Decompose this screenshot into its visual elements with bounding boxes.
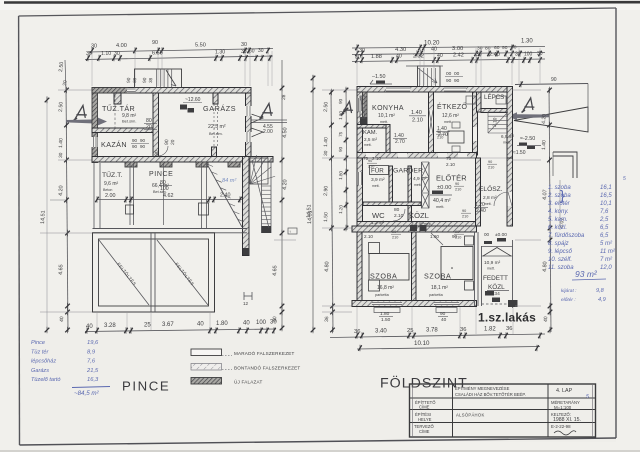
svg-text:90: 90 bbox=[440, 311, 446, 317]
svg-text:ELŐTÉR: ELŐTÉR bbox=[436, 174, 467, 183]
svg-text:20: 20 bbox=[170, 139, 176, 145]
svg-text:7,6: 7,6 bbox=[87, 359, 96, 365]
svg-text:10. szélf.: 10. szélf. bbox=[548, 257, 572, 263]
svg-text:4,9 m²: 4,9 m² bbox=[413, 176, 427, 182]
svg-text:9,8: 9,8 bbox=[596, 288, 605, 294]
svg-text:LÉPCS: LÉPCS bbox=[484, 94, 504, 101]
svg-text:mett.: mett. bbox=[484, 202, 492, 206]
svg-text:210: 210 bbox=[488, 166, 494, 170]
svg-text:30: 30 bbox=[359, 48, 365, 54]
svg-text:6,5: 6,5 bbox=[600, 225, 609, 231]
svg-text:40: 40 bbox=[396, 54, 402, 60]
svg-text:mett.: mett. bbox=[503, 141, 511, 145]
svg-text:1.30: 1.30 bbox=[215, 50, 225, 56]
svg-text:Bet.sim.: Bet.sim. bbox=[209, 132, 223, 136]
svg-text:2.10: 2.10 bbox=[394, 213, 404, 219]
svg-text:9. lépcső: 9. lépcső bbox=[548, 249, 573, 255]
svg-text:}: } bbox=[560, 187, 565, 203]
svg-text:Tüzelő tartó: Tüzelő tartó bbox=[31, 377, 61, 383]
svg-text:SZOBA: SZOBA bbox=[370, 272, 397, 281]
svg-text:38: 38 bbox=[132, 77, 137, 83]
svg-text:3.40: 3.40 bbox=[375, 329, 387, 335]
svg-text:előtér :: előtér : bbox=[561, 297, 576, 303]
svg-text:KAM.: KAM. bbox=[363, 130, 378, 136]
svg-text:GARÁZS: GARÁZS bbox=[203, 104, 236, 113]
svg-text:30: 30 bbox=[114, 51, 120, 57]
svg-text:30: 30 bbox=[58, 152, 64, 158]
svg-text:30: 30 bbox=[241, 49, 247, 55]
svg-text:00: 00 bbox=[484, 232, 490, 237]
svg-text:mett.: mett. bbox=[487, 267, 495, 271]
svg-text:ÉPÍTMÉNY MEGNEVEZÉSE: ÉPÍTMÉNY MEGNEVEZÉSE bbox=[455, 386, 510, 391]
svg-text:1.10: 1.10 bbox=[101, 51, 111, 57]
svg-text:–1.50: –1.50 bbox=[372, 74, 386, 80]
svg-text:3.67: 3.67 bbox=[162, 322, 174, 328]
svg-text:2,5: 2,5 bbox=[599, 217, 609, 223]
svg-text:40: 40 bbox=[197, 322, 204, 328]
svg-text:40: 40 bbox=[543, 316, 549, 322]
svg-text:90: 90 bbox=[140, 144, 146, 149]
svg-text:2,8 m²: 2,8 m² bbox=[483, 195, 497, 201]
svg-text:12,0: 12,0 bbox=[600, 265, 612, 271]
svg-text:10,1: 10,1 bbox=[600, 201, 612, 207]
svg-text:38: 38 bbox=[148, 77, 153, 83]
svg-text:11 m²: 11 m² bbox=[600, 249, 616, 255]
svg-text:2.40: 2.40 bbox=[489, 52, 500, 58]
svg-text:28: 28 bbox=[281, 94, 287, 100]
svg-text:3.78: 3.78 bbox=[426, 328, 438, 334]
svg-text:~84,5 m²: ~84,5 m² bbox=[74, 390, 100, 397]
svg-text:10.10: 10.10 bbox=[414, 340, 430, 347]
svg-text:HELYE: HELYE bbox=[418, 417, 432, 422]
svg-text:1.80: 1.80 bbox=[338, 170, 343, 180]
svg-text:36: 36 bbox=[324, 316, 330, 322]
svg-text:1.sz.lakás: 1.sz.lakás bbox=[478, 311, 536, 325]
svg-text:4.80: 4.80 bbox=[324, 261, 331, 272]
svg-text:≈1.50: ≈1.50 bbox=[513, 150, 526, 156]
svg-text:21,5: 21,5 bbox=[86, 368, 99, 374]
svg-text:90: 90 bbox=[368, 159, 372, 163]
svg-text:16,1: 16,1 bbox=[600, 185, 612, 191]
svg-text:mett.: mett. bbox=[380, 120, 388, 124]
svg-text:2.00: 2.00 bbox=[105, 193, 116, 199]
svg-text:2,5 m²: 2,5 m² bbox=[364, 137, 377, 142]
svg-text:mett.: mett. bbox=[424, 222, 432, 226]
svg-text:3.28: 3.28 bbox=[104, 323, 116, 329]
svg-text:6.50: 6.50 bbox=[152, 51, 163, 57]
svg-text:4.65: 4.65 bbox=[272, 265, 279, 276]
svg-text:30: 30 bbox=[477, 46, 483, 52]
svg-text:2.50: 2.50 bbox=[58, 102, 65, 113]
svg-text:22,5 m²: 22,5 m² bbox=[208, 124, 226, 130]
svg-text:2.70: 2.70 bbox=[395, 139, 405, 145]
svg-text:90: 90 bbox=[164, 139, 170, 145]
svg-text:5. kam.: 5. kam. bbox=[548, 217, 568, 223]
svg-text:Beton: Beton bbox=[103, 188, 112, 192]
svg-text:1.40: 1.40 bbox=[58, 138, 65, 148]
svg-text:40: 40 bbox=[59, 316, 65, 322]
svg-text:Pince: Pince bbox=[31, 340, 45, 346]
svg-text:12,6 m²: 12,6 m² bbox=[442, 113, 459, 119]
svg-text:20: 20 bbox=[146, 124, 152, 130]
svg-text:FÜR: FÜR bbox=[371, 168, 384, 175]
svg-text:5: 5 bbox=[586, 394, 589, 400]
svg-text:90: 90 bbox=[338, 98, 343, 104]
svg-text:1.80: 1.80 bbox=[380, 311, 390, 317]
svg-text:FEDETT: FEDETT bbox=[483, 275, 508, 282]
svg-text:9,6 m²: 9,6 m² bbox=[104, 181, 119, 187]
svg-text:ÉTKEZŐ: ÉTKEZŐ bbox=[437, 102, 468, 111]
svg-text:90: 90 bbox=[454, 78, 460, 84]
svg-text:ELŐSZ.: ELŐSZ. bbox=[479, 184, 503, 193]
svg-text:mett.: mett. bbox=[364, 143, 372, 147]
svg-text:6,9 m²: 6,9 m² bbox=[501, 134, 514, 139]
svg-text:40,4 m²: 40,4 m² bbox=[433, 198, 451, 204]
svg-text:MARADÓ FALSZERKEZET: MARADÓ FALSZERKEZET bbox=[234, 350, 294, 356]
svg-text:8. spájz: 8. spájz bbox=[548, 241, 569, 247]
svg-text:4.20: 4.20 bbox=[282, 179, 289, 190]
svg-text:10.20: 10.20 bbox=[424, 40, 440, 47]
svg-text:5 m²: 5 m² bbox=[600, 241, 613, 247]
svg-text:25: 25 bbox=[407, 328, 413, 334]
svg-text:Tüz tér: Tüz tér bbox=[31, 349, 50, 355]
svg-text:1,2 m²: 1,2 m² bbox=[371, 220, 384, 225]
svg-text:100: 100 bbox=[160, 186, 169, 192]
svg-text:6,5: 6,5 bbox=[600, 233, 609, 239]
svg-text:5.50: 5.50 bbox=[195, 43, 206, 49]
svg-text:mett.: mett. bbox=[444, 120, 452, 124]
svg-text:210: 210 bbox=[455, 188, 461, 192]
svg-text:40: 40 bbox=[437, 53, 443, 59]
svg-text:210: 210 bbox=[437, 136, 443, 140]
svg-text:2.50: 2.50 bbox=[58, 61, 65, 72]
svg-text:±0.00: ±0.00 bbox=[437, 185, 451, 191]
svg-text:10,9 m²: 10,9 m² bbox=[484, 260, 501, 266]
svg-text:3,9 m²: 3,9 m² bbox=[371, 177, 385, 183]
svg-text:KAZÁN: KAZÁN bbox=[101, 140, 127, 149]
svg-text:4.62: 4.62 bbox=[163, 193, 174, 199]
svg-text:WC: WC bbox=[372, 211, 385, 220]
svg-text:18,1 m²: 18,1 m² bbox=[431, 285, 448, 291]
svg-text:2.10: 2.10 bbox=[364, 234, 373, 239]
svg-text:4.20: 4.20 bbox=[58, 185, 65, 196]
svg-text:2.42: 2.42 bbox=[453, 53, 464, 59]
svg-text:2.40: 2.40 bbox=[476, 208, 486, 214]
svg-text:90: 90 bbox=[437, 130, 441, 134]
svg-text:90: 90 bbox=[502, 45, 508, 51]
svg-text:CSALÁDI HÁZ BŐV.TETŐTÉR BEÉP.: CSALÁDI HÁZ BŐV.TETŐTÉR BEÉP. bbox=[455, 392, 526, 397]
svg-text:5: 5 bbox=[623, 176, 626, 182]
svg-text:Bet.sim.: Bet.sim. bbox=[122, 119, 136, 124]
svg-text:00: 00 bbox=[454, 71, 460, 77]
svg-text:40: 40 bbox=[441, 317, 447, 323]
svg-text:≈-2.50: ≈-2.50 bbox=[520, 136, 535, 142]
svg-text:100: 100 bbox=[524, 51, 533, 57]
svg-text:19,6: 19,6 bbox=[87, 340, 99, 346]
svg-text:4.50: 4.50 bbox=[282, 127, 289, 138]
svg-text:2.32: 2.32 bbox=[413, 53, 424, 59]
svg-text:ALSÓPÁHOK: ALSÓPÁHOK bbox=[456, 413, 485, 418]
svg-text:1.40: 1.40 bbox=[411, 110, 422, 116]
svg-text:2.10: 2.10 bbox=[446, 162, 455, 167]
svg-text:16,5: 16,5 bbox=[600, 193, 612, 199]
svg-text:80: 80 bbox=[485, 45, 491, 51]
svg-text:30: 30 bbox=[515, 52, 521, 58]
svg-text:2.10: 2.10 bbox=[372, 156, 381, 161]
svg-text:90: 90 bbox=[551, 77, 557, 83]
svg-text:30: 30 bbox=[241, 42, 247, 48]
svg-text:30: 30 bbox=[355, 55, 361, 61]
svg-text:mett.: mett. bbox=[436, 205, 444, 209]
svg-text:1.40: 1.40 bbox=[323, 137, 330, 147]
svg-text:00: 00 bbox=[446, 71, 452, 77]
svg-text:Garázs: Garázs bbox=[31, 368, 49, 374]
svg-text:7 m²: 7 m² bbox=[600, 257, 613, 263]
svg-text:CÍME: CÍME bbox=[419, 429, 430, 434]
svg-text:90: 90 bbox=[154, 150, 160, 156]
svg-text:4.20: 4.20 bbox=[541, 114, 548, 125]
svg-text:ÚJ FALAZAT: ÚJ FALAZAT bbox=[234, 379, 262, 385]
svg-text:36: 36 bbox=[354, 329, 360, 335]
svg-text:±0.00: ±0.00 bbox=[495, 232, 507, 238]
svg-text:mett.: mett. bbox=[372, 184, 380, 188]
svg-text:30: 30 bbox=[91, 44, 97, 50]
svg-text:7,6: 7,6 bbox=[600, 209, 609, 215]
svg-text:30: 30 bbox=[270, 320, 277, 326]
svg-text:TŰZ.T.: TŰZ.T. bbox=[102, 170, 122, 179]
svg-text:4.00: 4.00 bbox=[116, 43, 127, 49]
svg-text:7. fürdőszoba: 7. fürdőszoba bbox=[548, 233, 585, 239]
svg-text:mett.: mett. bbox=[414, 183, 422, 187]
svg-text:210: 210 bbox=[368, 165, 374, 169]
svg-text:16,3: 16,3 bbox=[87, 377, 99, 383]
svg-text:2.10: 2.10 bbox=[412, 118, 423, 124]
svg-text:2.10: 2.10 bbox=[492, 117, 498, 127]
svg-text:parketta: parketta bbox=[375, 293, 390, 297]
svg-text:KÖZL: KÖZL bbox=[488, 283, 505, 291]
svg-text:75: 75 bbox=[338, 131, 343, 137]
svg-text:36: 36 bbox=[506, 326, 512, 332]
svg-text:60: 60 bbox=[494, 45, 500, 51]
svg-text:1.82: 1.82 bbox=[484, 327, 496, 333]
svg-text:KONYHA: KONYHA bbox=[372, 105, 404, 112]
svg-text:90: 90 bbox=[488, 160, 492, 164]
svg-text:4. kony.: 4. kony. bbox=[548, 209, 569, 215]
svg-text:CÍME: CÍME bbox=[419, 405, 430, 410]
svg-text:40: 40 bbox=[243, 321, 250, 327]
svg-text:parketta: parketta bbox=[429, 293, 444, 297]
svg-text:3,4 m²: 3,4 m² bbox=[411, 221, 424, 226]
svg-text:4,9: 4,9 bbox=[598, 297, 606, 303]
svg-text:90: 90 bbox=[140, 138, 146, 143]
svg-text:90: 90 bbox=[152, 40, 158, 46]
svg-text:1.88: 1.88 bbox=[371, 54, 382, 60]
svg-text:12: 12 bbox=[243, 301, 249, 306]
svg-text:30: 30 bbox=[323, 150, 329, 156]
svg-text:40: 40 bbox=[86, 324, 93, 330]
svg-text:30: 30 bbox=[258, 48, 264, 54]
svg-text:93 m²: 93 m² bbox=[575, 269, 598, 279]
svg-text:GARDER: GARDER bbox=[393, 168, 423, 175]
svg-text:PINCE: PINCE bbox=[122, 379, 170, 394]
svg-text:90: 90 bbox=[392, 230, 396, 234]
svg-text:E-2-22-98: E-2-22-98 bbox=[551, 424, 571, 429]
svg-text:25: 25 bbox=[144, 323, 151, 329]
svg-text:↑: ↑ bbox=[289, 229, 291, 234]
svg-text:8,9: 8,9 bbox=[87, 349, 96, 355]
svg-text:KÖZL: KÖZL bbox=[409, 211, 429, 220]
svg-text:1.80: 1.80 bbox=[216, 321, 228, 327]
svg-text:1.20: 1.20 bbox=[338, 204, 343, 214]
svg-text:M=1:100: M=1:100 bbox=[554, 405, 572, 410]
svg-text:BONTANDÓ FALSZERKEZET: BONTANDÓ FALSZERKEZET bbox=[234, 365, 300, 371]
svg-text:90: 90 bbox=[132, 138, 138, 143]
svg-text:90: 90 bbox=[452, 234, 458, 239]
svg-text:80: 80 bbox=[394, 207, 400, 213]
svg-text:kijárat :: kijárat : bbox=[561, 288, 577, 294]
svg-text:2.90: 2.90 bbox=[323, 186, 330, 197]
svg-text:210: 210 bbox=[392, 236, 398, 240]
svg-text:11. szoba: 11. szoba bbox=[548, 265, 574, 271]
svg-text:10,1 m²: 10,1 m² bbox=[378, 113, 395, 119]
svg-text:84 m²: 84 m² bbox=[222, 178, 237, 184]
svg-text:1.30: 1.30 bbox=[521, 39, 533, 45]
svg-text:2.00: 2.00 bbox=[263, 129, 273, 135]
svg-text:90: 90 bbox=[132, 144, 138, 149]
svg-text:TŰZ.TÁR: TŰZ.TÁR bbox=[102, 104, 135, 113]
svg-text:3.00: 3.00 bbox=[452, 46, 463, 52]
svg-text:PINCE: PINCE bbox=[149, 171, 173, 178]
svg-text:14,51: 14,51 bbox=[307, 210, 314, 224]
svg-text:6. közl.: 6. közl. bbox=[548, 225, 567, 231]
svg-text:75: 75 bbox=[446, 156, 452, 161]
svg-text:~12.60: ~12.60 bbox=[185, 97, 201, 103]
svg-text:90: 90 bbox=[338, 146, 343, 152]
svg-text:100: 100 bbox=[256, 320, 267, 326]
svg-text:lépcsőház: lépcsőház bbox=[31, 359, 56, 365]
svg-text:30: 30 bbox=[86, 51, 92, 57]
svg-text:1.50: 1.50 bbox=[381, 317, 391, 323]
svg-text:4.65: 4.65 bbox=[58, 264, 65, 275]
svg-text:1.50: 1.50 bbox=[323, 212, 330, 222]
svg-text:90: 90 bbox=[446, 78, 452, 84]
svg-text:2.50: 2.50 bbox=[323, 102, 330, 113]
svg-text:1988 XI. 15.: 1988 XI. 15. bbox=[553, 417, 581, 423]
svg-text:90: 90 bbox=[455, 182, 459, 186]
svg-text:4. LAP: 4. LAP bbox=[556, 388, 573, 394]
svg-text:36: 36 bbox=[460, 327, 466, 333]
svg-text:1.40: 1.40 bbox=[541, 140, 548, 150]
svg-text:4.30: 4.30 bbox=[395, 47, 406, 53]
svg-text:210: 210 bbox=[462, 215, 468, 219]
svg-text:90: 90 bbox=[462, 209, 466, 213]
svg-text:14,51: 14,51 bbox=[40, 210, 47, 224]
